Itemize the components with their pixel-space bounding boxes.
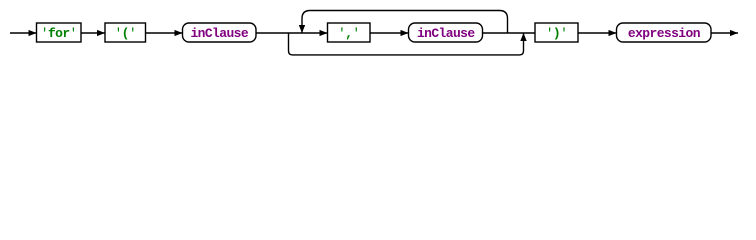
arrow into ',' bbox=[320, 30, 328, 36]
terminal '(' bbox=[105, 23, 146, 42]
terminal 'for' bbox=[37, 23, 82, 42]
svg-text:',': ',' bbox=[338, 26, 360, 41]
svg-text:')': ')' bbox=[546, 26, 568, 41]
arrow into inClause 1 bbox=[175, 30, 183, 36]
terminal ')' bbox=[535, 23, 578, 42]
terminal ',' bbox=[328, 23, 371, 42]
arrow into expression bbox=[609, 30, 617, 36]
svg-text:'for': 'for' bbox=[41, 26, 77, 41]
wire repeat loop (top) bbox=[302, 11, 508, 34]
arrow bypass rejoin (up) bbox=[520, 33, 526, 41]
svg-text:'(': '(' bbox=[114, 26, 136, 41]
arrow into '(' bbox=[97, 30, 105, 36]
non-terminal expression bbox=[617, 23, 712, 42]
svg-text:inClause: inClause bbox=[417, 26, 475, 41]
wire skip bypass (bottom) bbox=[289, 33, 524, 55]
arrow loop re-entry (down) bbox=[299, 25, 305, 33]
arrow end bbox=[730, 30, 738, 36]
non-terminal inClause 2 bbox=[409, 23, 483, 42]
arrow into inClause 2 bbox=[401, 30, 409, 36]
non-terminal inClause 1 bbox=[183, 23, 257, 42]
svg-text:expression: expression bbox=[628, 26, 701, 41]
wire main line bbox=[10, 32, 738, 34]
arrow start bbox=[29, 30, 37, 36]
svg-text:inClause: inClause bbox=[190, 26, 248, 41]
